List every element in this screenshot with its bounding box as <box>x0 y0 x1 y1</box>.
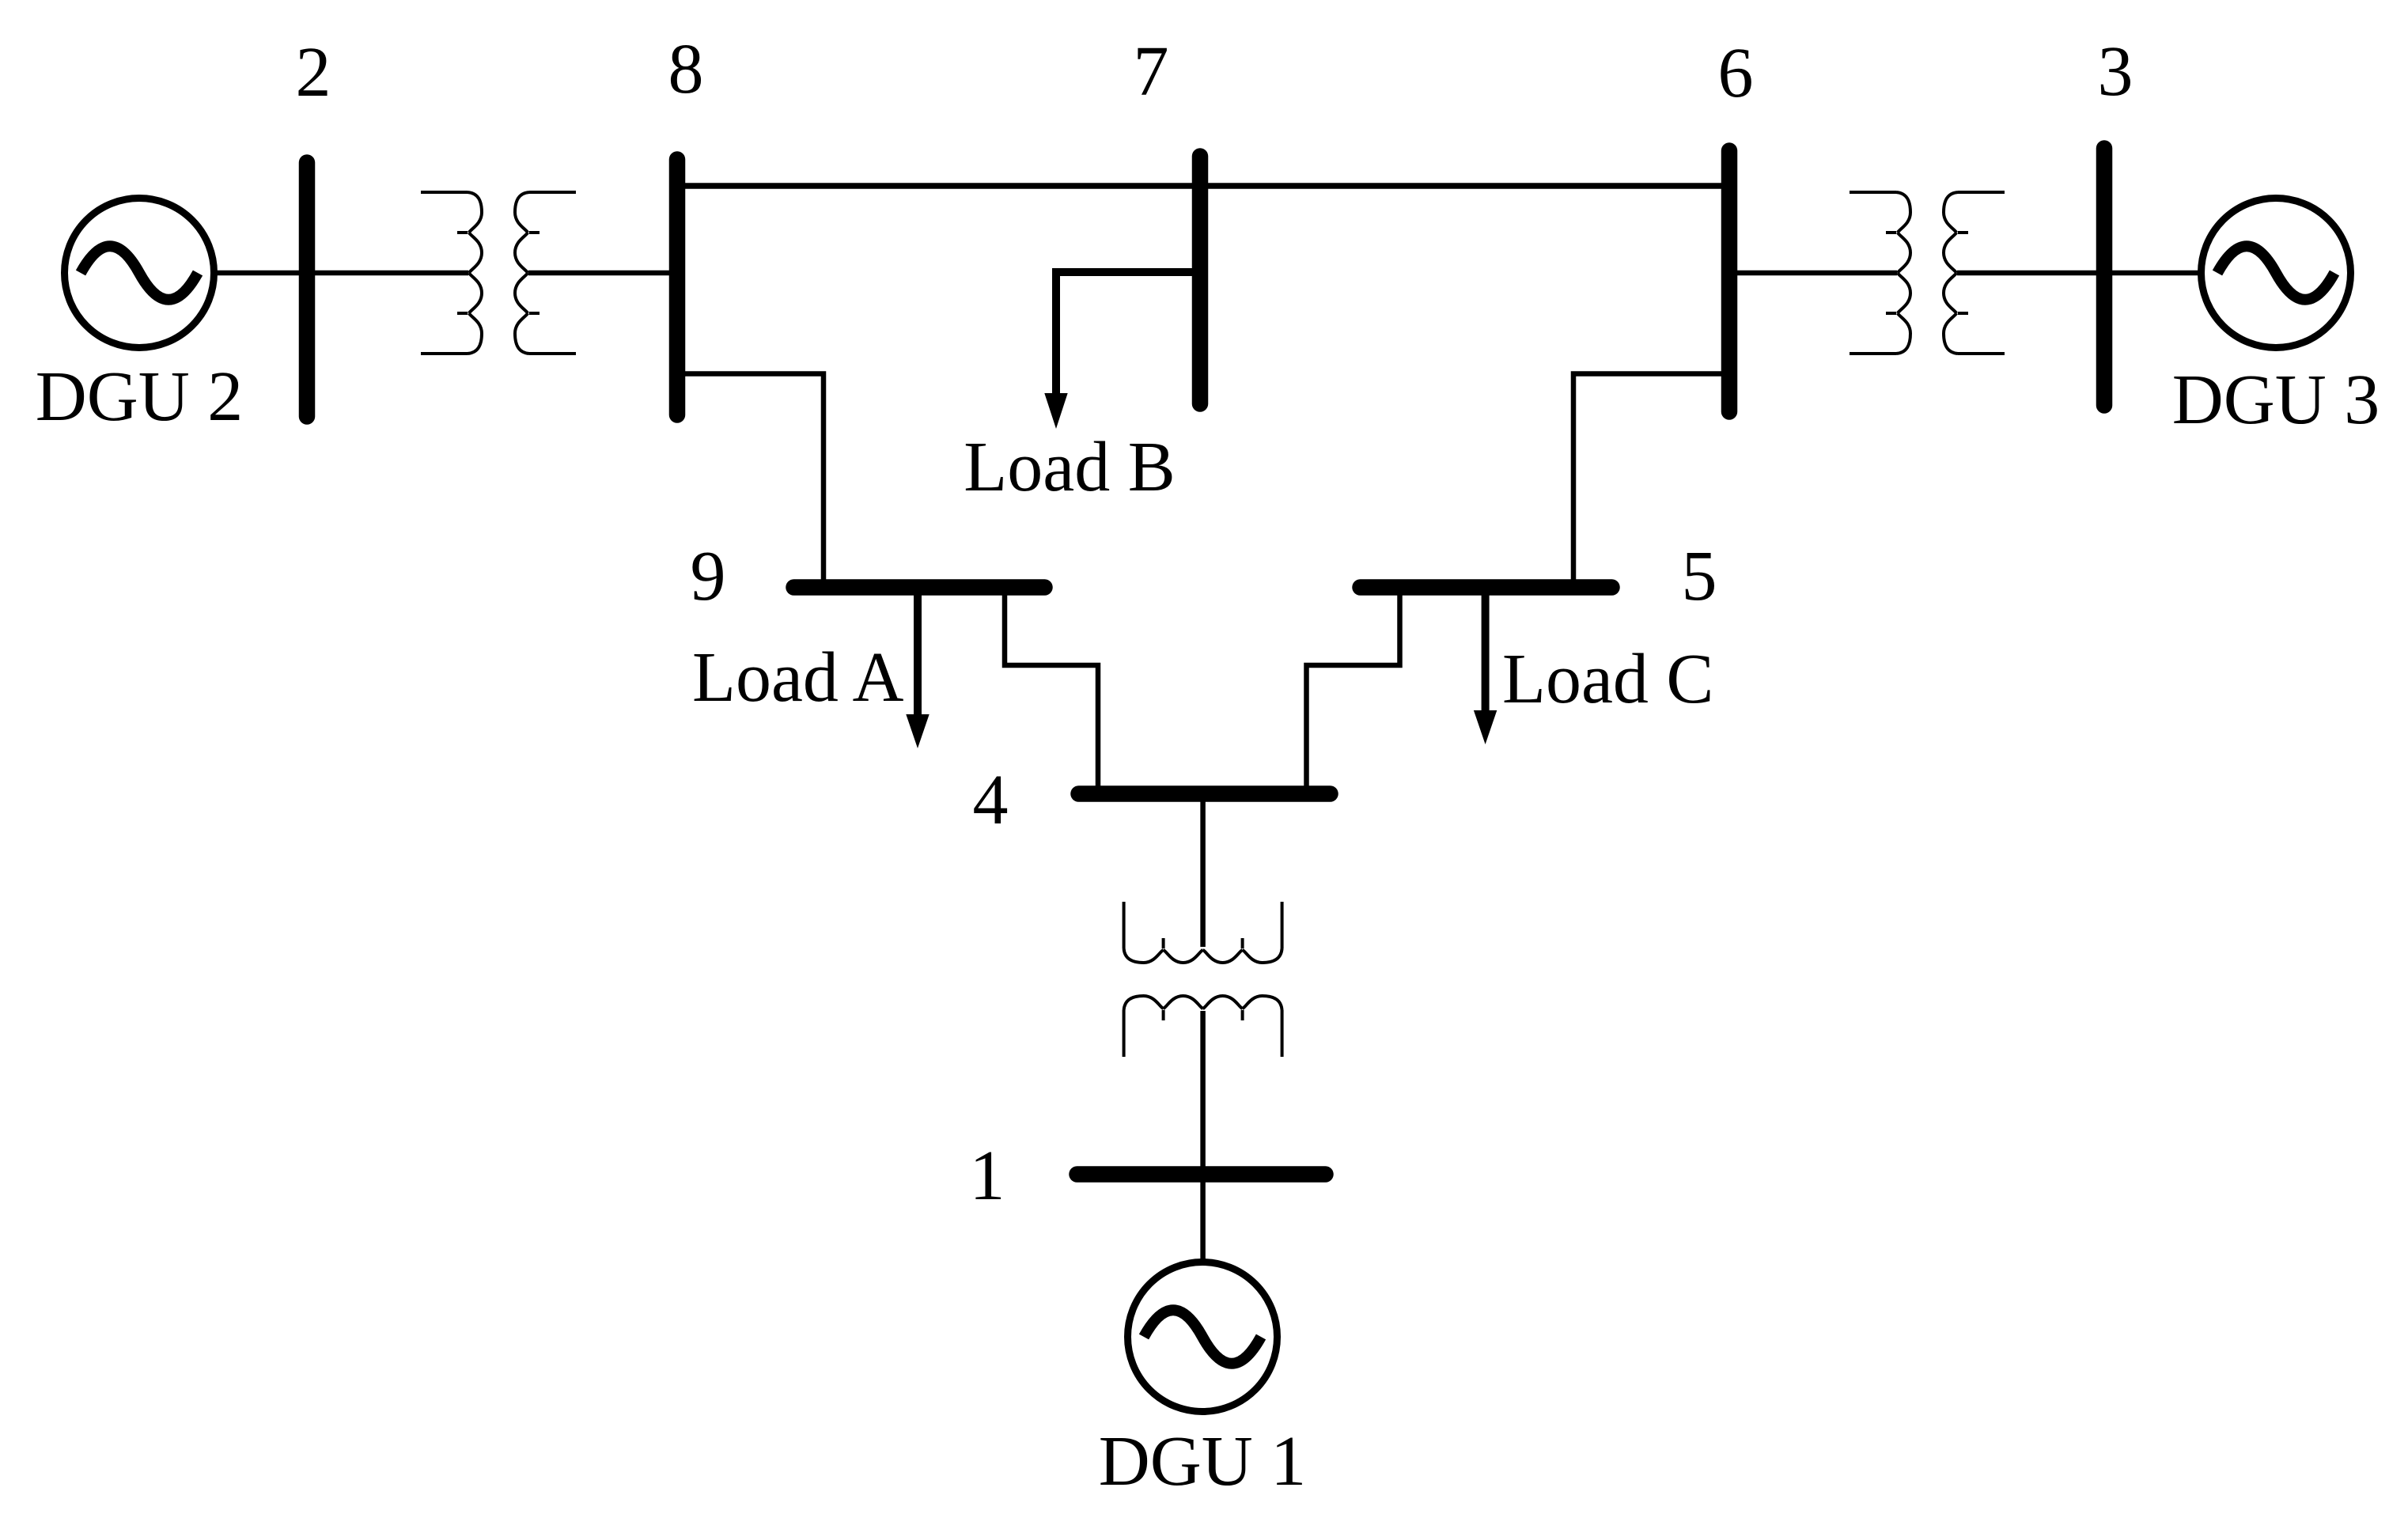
generator DGU 1 <box>1128 1262 1278 1412</box>
wire DGU 2 to bus 2 <box>214 271 309 276</box>
transformer T2 <box>421 192 576 354</box>
svg-text:7: 7 <box>1134 32 1169 111</box>
label Load C <box>1502 640 1713 718</box>
wire bus 4 to transformer T1 <box>1200 794 1206 948</box>
svg-text:9: 9 <box>691 537 726 615</box>
bus 6 <box>1721 151 1738 412</box>
bus 2 <box>299 163 316 417</box>
bus 5 <box>1361 579 1612 596</box>
svg-text:DGU 1: DGU 1 <box>1099 1422 1307 1501</box>
svg-text:Load A: Load A <box>692 638 903 717</box>
bus 4 <box>1079 785 1331 802</box>
wire bus 9 to bus 4 <box>1005 588 1098 794</box>
transformer T3 <box>1850 192 2005 354</box>
label DGU 1 <box>1099 1422 1307 1501</box>
label 1 <box>970 1137 1005 1215</box>
load A arrow <box>906 588 929 749</box>
label 7 <box>1134 32 1169 111</box>
svg-text:4: 4 <box>973 761 1009 839</box>
wire bus 8 to bus 9 <box>677 374 823 588</box>
wire transformer T2 to bus 8 <box>528 271 677 276</box>
wire transformer T3 to bus 3 <box>1957 271 2104 276</box>
wire bus 1 to DGU 1 <box>1200 1175 1206 1265</box>
svg-text:6: 6 <box>1718 34 1754 112</box>
wire bus 2 to transformer T2 <box>307 271 468 276</box>
svg-text:8: 8 <box>668 30 704 108</box>
wire bus 3 to DGU 3 <box>2104 271 2202 276</box>
transformer T1 <box>1124 902 1282 1057</box>
svg-text:2: 2 <box>296 33 331 112</box>
label Load B <box>964 428 1175 506</box>
label DGU 3 <box>2172 361 2380 439</box>
wire bus 6 to bus 5 <box>1573 374 1729 588</box>
label 6 <box>1718 34 1754 112</box>
bus 3 <box>2096 149 2113 406</box>
bus 8 <box>669 160 686 415</box>
bus 1 <box>1077 1166 1326 1183</box>
label DGU 2 <box>36 358 244 436</box>
label 9 <box>691 537 726 615</box>
wire bus 6 to transformer T3 <box>1729 271 1897 276</box>
svg-text:DGU 3: DGU 3 <box>2172 361 2380 439</box>
label Load A <box>692 638 903 717</box>
bus 7 <box>1192 157 1209 404</box>
load B arrow <box>1044 272 1200 429</box>
generator DGU 3 <box>2202 199 2351 348</box>
bus 9 <box>794 579 1045 596</box>
svg-text:Load C: Load C <box>1502 640 1713 718</box>
svg-text:5: 5 <box>1682 537 1717 615</box>
wire bus 5 to bus 4 <box>1307 588 1400 794</box>
svg-text:3: 3 <box>2098 32 2134 111</box>
label 8 <box>668 30 704 108</box>
svg-text:DGU 2: DGU 2 <box>36 358 244 436</box>
wire bus 8 to bus 7 to bus 6 <box>677 183 1729 189</box>
label 3 <box>2098 32 2134 111</box>
svg-text:Load B: Load B <box>964 428 1175 506</box>
load C arrow <box>1474 588 1497 745</box>
label 4 <box>973 761 1009 839</box>
label 5 <box>1682 537 1717 615</box>
svg-text:1: 1 <box>970 1137 1005 1215</box>
wire transformer T1 to bus 1 <box>1200 1011 1206 1175</box>
label 2 <box>296 33 331 112</box>
generator DGU 2 <box>65 199 214 348</box>
